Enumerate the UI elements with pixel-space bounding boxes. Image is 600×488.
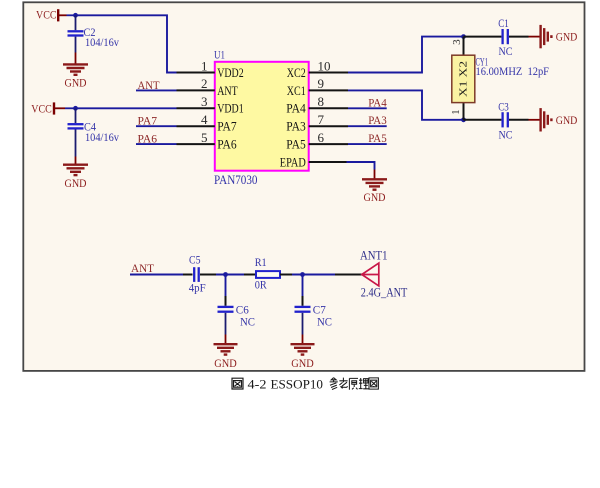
svg-text:PA3: PA3 (286, 119, 306, 134)
junction node R1/C7 (300, 272, 305, 277)
svg-text:X1 X2: X1 X2 (458, 61, 469, 97)
svg-text:PA4: PA4 (286, 101, 306, 116)
svg-text:EPAD: EPAD (280, 154, 306, 169)
capacitor C5 (189, 252, 206, 294)
svg-text:PA7: PA7 (217, 119, 237, 134)
pin 6 stub (309, 143, 348, 145)
capacitor C2 (68, 15, 120, 52)
pin 5 stub (177, 143, 215, 145)
svg-text:ESSOP10: ESSOP10 (271, 377, 324, 392)
svg-text:GND: GND (556, 30, 578, 44)
wire EPAD to ground (347, 162, 375, 170)
svg-text:PA3: PA3 (368, 115, 387, 127)
svg-text:PA5: PA5 (368, 133, 387, 145)
pin 1 stub (177, 72, 215, 74)
wire PA4 (pin 8) (348, 107, 387, 109)
caption figure title (232, 377, 378, 392)
capacitor C7 (295, 296, 333, 335)
svg-text:ANT1: ANT1 (360, 248, 388, 262)
svg-text:GND: GND (65, 176, 87, 190)
wire junction to C7 (302, 275, 304, 297)
pin 10 stub (309, 72, 348, 74)
wire VCC2 stub (65, 107, 76, 109)
svg-text:U1: U1 (214, 50, 225, 62)
pin 8 stub (309, 107, 348, 109)
pin 3 stub (177, 107, 215, 109)
junction VCC2/C4 (73, 106, 78, 111)
power symbol VCC (mid left) (31, 101, 65, 115)
svg-text:PA4: PA4 (368, 97, 387, 109)
svg-text:1: 1 (201, 58, 208, 73)
pin 4 stub (177, 125, 215, 127)
svg-text:6: 6 (318, 130, 325, 145)
svg-text:C1: C1 (498, 16, 509, 30)
wire C7 to ground (302, 335, 304, 345)
svg-text:XC1: XC1 (287, 83, 306, 98)
svg-text:C3: C3 (498, 99, 509, 113)
svg-text:C5: C5 (189, 252, 201, 266)
wire VCC2 to U1 pin 3 (VDD1) (76, 107, 177, 109)
wire EPAD ground stub (374, 170, 376, 180)
wire PA6 to pin 5 (136, 143, 177, 145)
svg-text:4-2: 4-2 (248, 377, 267, 392)
ground GND below C7 (291, 344, 315, 370)
wire junction to C6 (225, 275, 227, 297)
wire C6 to ground (225, 335, 227, 345)
svg-text:10: 10 (318, 58, 331, 73)
wire PA5 (pin 6) (348, 143, 387, 145)
svg-text:2.4G_ANT: 2.4G_ANT (361, 285, 408, 299)
junction crystal bottom node (461, 117, 466, 122)
svg-text:NC: NC (317, 315, 332, 329)
wire C1 to ground (529, 36, 540, 38)
svg-text:VCC: VCC (36, 8, 57, 22)
svg-text:GND: GND (364, 190, 386, 204)
svg-text:5: 5 (201, 130, 208, 145)
svg-text:NC: NC (499, 127, 513, 141)
svg-text:PAN7030: PAN7030 (214, 172, 258, 187)
wire VCC1 stub (67, 14, 76, 16)
junction node C5/C6 (223, 272, 228, 277)
svg-text:2: 2 (201, 76, 208, 91)
svg-text:XC2: XC2 (287, 65, 306, 80)
capacitor C3 (464, 99, 529, 141)
wire XC2 (pin 10) to crystal (348, 37, 464, 73)
wire R1 to antenna (292, 274, 335, 276)
junction crystal top node (461, 34, 466, 39)
svg-text:R1: R1 (255, 255, 267, 269)
svg-text:GND: GND (214, 356, 237, 370)
ground GND below C6 (214, 344, 238, 370)
wire C5 to junction (200, 274, 216, 276)
schematic sheet frame (23, 2, 584, 371)
wire VCC1 to U1 pin 1 (76, 15, 177, 72)
wire antenna pin (335, 274, 362, 276)
svg-text:4pF: 4pF (189, 280, 206, 294)
svg-text:ANT: ANT (217, 83, 238, 98)
svg-text:PA6: PA6 (217, 137, 237, 152)
svg-text:4: 4 (201, 112, 208, 127)
svg-text:3: 3 (451, 39, 463, 45)
svg-text:104/16v: 104/16v (85, 132, 119, 144)
op-amp/IC U1 body (215, 62, 309, 171)
capacitor C4 (68, 108, 120, 156)
wire C5 left pin (183, 274, 193, 276)
wire C3 to ground (529, 119, 540, 121)
capacitor C1 (464, 16, 529, 58)
ground GND below C4 (63, 165, 88, 190)
junction VCC1/C2 (73, 13, 78, 18)
pin EPAD stub (309, 161, 347, 163)
svg-text:VDD1: VDD1 (217, 101, 244, 116)
svg-text:VDD2: VDD2 (217, 65, 244, 80)
wire XC1 (pin 9) to crystal (348, 90, 464, 119)
pin 9 stub (309, 89, 348, 91)
pin 7 stub (309, 125, 348, 127)
wire PA7 to pin 4 (136, 125, 177, 127)
svg-text:16.00MHZ 12pF: 16.00MHZ 12pF (476, 66, 550, 78)
svg-text:8: 8 (318, 94, 325, 109)
svg-text:1: 1 (450, 109, 462, 115)
svg-text:ANT: ANT (131, 263, 154, 275)
resistor R1 (244, 255, 292, 291)
crystal CY1 (450, 37, 475, 120)
capacitor C6 (218, 296, 256, 335)
wire C2 to ground (75, 53, 77, 65)
pin 2 stub (177, 89, 215, 91)
svg-text:GND: GND (291, 356, 314, 370)
ground GND right of C1 (541, 25, 578, 48)
wire ANT to pin 2 (136, 89, 177, 91)
ground GND below EPAD (362, 179, 387, 204)
svg-text:NC: NC (499, 44, 513, 58)
svg-text:9: 9 (318, 76, 325, 91)
svg-text:PA5: PA5 (286, 137, 306, 152)
svg-text:0R: 0R (255, 277, 267, 291)
wire PA3 (pin 7) (348, 125, 387, 127)
ground GND below C2 (63, 64, 88, 89)
wire junction to R1 (216, 274, 244, 276)
svg-text:104/16v: 104/16v (85, 37, 119, 49)
power symbol VCC (top left) (36, 8, 67, 22)
svg-text:VCC: VCC (31, 101, 52, 115)
ground GND right of C3 (541, 108, 578, 131)
svg-text:7: 7 (318, 112, 325, 127)
antenna ANT1 symbol (362, 263, 379, 286)
svg-text:NC: NC (240, 315, 255, 329)
svg-text:GND: GND (65, 75, 87, 89)
svg-text:GND: GND (556, 113, 578, 127)
wire ANT to C5 (130, 274, 183, 276)
wire C4 to ground (75, 157, 77, 165)
svg-text:3: 3 (201, 94, 208, 109)
